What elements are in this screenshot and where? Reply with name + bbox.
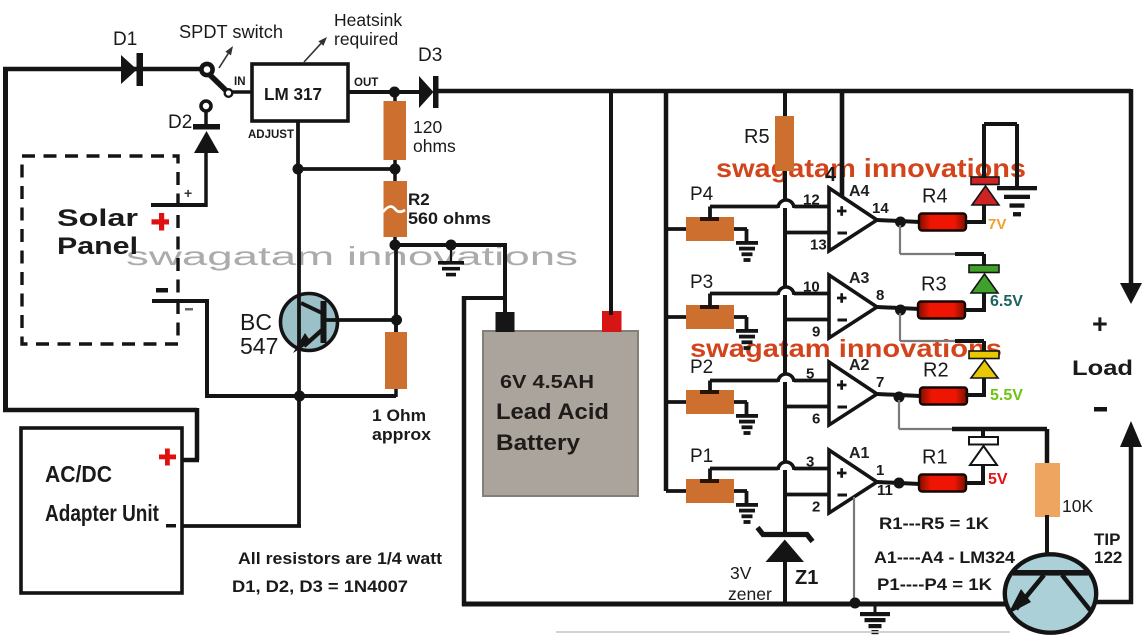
svg-text:10: 10 [803, 279, 820, 296]
svg-text:R3: R3 [921, 274, 947, 296]
resistor R5 [783, 91, 787, 118]
wire A1 output [877, 482, 920, 484]
op-amp A1 [829, 450, 877, 513]
ground of P4 [736, 241, 758, 245]
wire battery minus vertical [503, 243, 507, 314]
svg-text:120: 120 [413, 117, 442, 137]
wire reference rail vertical [783, 171, 787, 534]
junction ground rail [850, 598, 861, 609]
svg-text:zener: zener [728, 584, 772, 604]
wire D2 to solar plus [204, 152, 208, 207]
svg-text:Adapter Unit: Adapter Unit [45, 500, 159, 526]
BC547 internals [321, 301, 327, 343]
svg-text:All resistors are 1/4 watt: All resistors are 1/4 watt [238, 549, 442, 568]
svg-text:+: + [1092, 309, 1108, 339]
regulator LM317 box [252, 64, 348, 121]
zener diode Z1 [758, 528, 813, 542]
svg-text:6.5V: 6.5V [990, 293, 1023, 310]
svg-text:BC: BC [240, 309, 272, 335]
wire switch to LM317 IN [232, 90, 253, 94]
junction BC547 base [391, 315, 402, 326]
svg-text:P1: P1 [690, 446, 713, 467]
wire battery red terminal to rail [609, 91, 613, 315]
wire bottom ground rail [462, 602, 1006, 607]
wire A2 junction down to 10K feed [898, 400, 900, 429]
svg-text:1: 1 [876, 462, 884, 479]
svg-text:P3: P3 [690, 272, 713, 293]
wire 10K to TIP122 base [1045, 515, 1049, 573]
svg-text:P4: P4 [690, 184, 714, 205]
svg-text:8: 8 [876, 287, 884, 304]
svg-text:SPDT switch: SPDT switch [179, 22, 283, 42]
crossover hump at P1 line [778, 462, 794, 470]
svg-text:A4: A4 [849, 183, 870, 200]
wire white LED top to 10K [952, 427, 1047, 432]
svg-text:5: 5 [806, 366, 814, 383]
svg-text:2: 2 [812, 499, 820, 516]
wire ADJUST to resistor junction [298, 167, 395, 171]
wire base junction vertical [394, 245, 398, 333]
svg-text:Load: Load [1072, 357, 1133, 380]
svg-text:12: 12 [803, 192, 820, 209]
svg-text:ADJUST: ADJUST [248, 129, 294, 141]
wire P2 wiper to + input [708, 381, 712, 392]
potentiometer P3 [666, 315, 688, 319]
junction A3 output [895, 305, 906, 316]
ground symbol bottom [874, 604, 877, 613]
svg-text:P1----P4 = 1K: P1----P4 = 1K [877, 575, 993, 594]
svg-text:11: 11 [877, 482, 893, 499]
svg-text:R1: R1 [922, 447, 948, 469]
resistor R3 [918, 302, 965, 319]
ground symbol mid [450, 245, 452, 261]
svg-text:9: 9 [812, 324, 820, 341]
wire LM317 OUT to D3 [348, 90, 419, 94]
wire red LED to top ground loop [982, 124, 986, 178]
diode D1 [121, 55, 137, 84]
svg-text:R2: R2 [408, 190, 430, 209]
junction A2 output [894, 392, 905, 403]
potentiometer P1 [666, 489, 688, 493]
junction emitter [294, 391, 305, 402]
svg-text:swagatam innovations: swagatam innovations [126, 241, 578, 271]
wire solar minus to emitter junction [205, 394, 396, 398]
junction R2 bottom [390, 240, 401, 251]
op-amp A4 [829, 188, 877, 251]
svg-text:Heatsink: Heatsink [334, 10, 402, 30]
wire load right rail down arrow [1129, 89, 1134, 287]
wire R3 to green LED [965, 308, 984, 312]
battery black terminal [496, 312, 515, 332]
svg-text:Battery: Battery [496, 430, 581, 455]
resistor R2 560 ohms [393, 169, 397, 183]
wire solar plus terminal [151, 203, 207, 207]
svg-text:10K: 10K [1062, 496, 1093, 516]
wire A4 output [877, 220, 920, 222]
wire solar minus terminal [152, 299, 207, 303]
junction ground tap [446, 240, 457, 251]
svg-text:R5: R5 [744, 126, 770, 148]
wire A3 junction down to yellow LED [899, 313, 901, 341]
crossover hump at P2 line [778, 374, 794, 382]
svg-text:D2: D2 [168, 112, 192, 133]
potentiometer P4 [666, 227, 688, 231]
svg-text:D1: D1 [113, 29, 137, 50]
svg-text:A3: A3 [849, 270, 870, 287]
svg-text:R4: R4 [922, 186, 948, 208]
wire collector-emitter through BC547 [297, 171, 301, 398]
wire negative rail vertical [462, 296, 467, 606]
svg-text:A1----A4 - LM324: A1----A4 - LM324 [874, 548, 1016, 567]
svg-text:A1: A1 [849, 445, 870, 462]
svg-text:1 Ohm: 1 Ohm [372, 406, 426, 425]
svg-text:560 ohms: 560 ohms [408, 209, 491, 228]
label load minus [1094, 407, 1107, 412]
junction 120 ohm bottom [390, 164, 401, 175]
svg-text:4: 4 [825, 164, 837, 186]
wire ADJUST vertical upper [296, 121, 300, 171]
wire adapter minus horizontal [182, 524, 301, 528]
ground of P3 [736, 329, 758, 333]
solar minus small mark [185, 308, 193, 311]
wire A3 output [877, 307, 920, 309]
wire adapter plus stub [182, 458, 199, 463]
svg-text:Lead Acid: Lead Acid [496, 399, 609, 424]
wire R1 to white LED [966, 481, 983, 485]
svg-text:14: 14 [872, 200, 889, 217]
LED white 5V [969, 437, 998, 445]
svg-text:D1, D2, D3 = 1N4007: D1, D2, D3 = 1N4007 [232, 577, 408, 596]
wire left rail vertical [3, 67, 8, 410]
adapter minus symbol [166, 524, 176, 528]
wire A2 output [877, 394, 920, 396]
svg-text:D3: D3 [418, 45, 442, 66]
wire emitter to adapter minus [297, 396, 301, 526]
LED red 7V [971, 177, 999, 185]
resistor R4 [919, 214, 966, 231]
arrow to SPDT switch [219, 54, 228, 68]
svg-text:6: 6 [812, 411, 820, 428]
svg-text:122: 122 [1094, 548, 1122, 567]
LED yellow 5.5V [969, 351, 999, 359]
resistor 10K [1035, 463, 1060, 517]
junction ADJUST [293, 164, 304, 175]
wire op-amp supply pin 4 [840, 91, 845, 199]
svg-text:7V: 7V [988, 216, 1006, 233]
wire P1 wiper to + input [708, 469, 712, 481]
diode D2 [201, 101, 211, 111]
wire - input of A3 [786, 318, 829, 322]
potentiometer P2 [666, 400, 688, 404]
wire R2 bottom to battery minus [395, 243, 505, 247]
op-amp A3 [829, 275, 877, 338]
ground of P1 [736, 503, 758, 507]
battery 6V 4.5AH box [483, 331, 638, 496]
transistor TIP122 [1005, 554, 1096, 632]
wire pin 11 to ground rail [853, 497, 855, 602]
wire main rail after D3 [438, 89, 1131, 94]
svg-text:5V: 5V [988, 471, 1008, 488]
wire - input of A1 [786, 493, 829, 497]
resistor R1 [919, 475, 966, 492]
svg-text:R1---R5 = 1K: R1---R5 = 1K [879, 514, 990, 533]
svg-text:3V: 3V [730, 563, 752, 583]
svg-text:LM 317: LM 317 [264, 84, 322, 104]
resistor 120 ohms [393, 92, 397, 103]
ground of P2 [736, 414, 758, 418]
AC/DC adapter box [21, 428, 182, 593]
battery red terminal [602, 311, 622, 332]
ground symbol top right [997, 186, 1037, 190]
wire - input of A2 [786, 405, 829, 409]
svg-text:Solar: Solar [57, 205, 138, 232]
svg-text:AC/DC: AC/DC [45, 461, 112, 487]
wire BC547 base lead [324, 318, 396, 322]
svg-text:+: + [184, 185, 192, 201]
svg-text:Z1: Z1 [795, 567, 818, 589]
wire top-left horizontal to switch [3, 67, 203, 72]
svg-text:5.5V: 5.5V [990, 387, 1023, 404]
wire load right rail up arrow [1129, 444, 1134, 604]
svg-text:7: 7 [876, 374, 884, 391]
svg-text:R2: R2 [923, 360, 949, 382]
junction A4 output [895, 217, 906, 228]
bottom faint divider [556, 631, 1010, 633]
adapter plus symbol [159, 455, 176, 460]
svg-text:IN: IN [234, 76, 246, 88]
svg-text:ohms: ohms [413, 136, 456, 156]
resistor R2 [920, 388, 967, 405]
wire A4 junction down to green LED [899, 225, 901, 254]
wire R2 to yellow LED [965, 393, 984, 397]
solar panel dashed box [22, 156, 178, 344]
wire TIP122 collector to load [1094, 600, 1133, 605]
svg-text:6V 4.5AH: 6V 4.5AH [500, 372, 594, 392]
crossover hump at P4 line [778, 200, 794, 208]
junction A1 output [894, 478, 905, 489]
svg-text:547: 547 [240, 333, 278, 359]
resistor 1 Ohm [394, 320, 398, 334]
svg-text:TIP: TIP [1094, 530, 1120, 549]
wire left indicator rail [664, 91, 669, 491]
wire solar minus down [205, 299, 209, 396]
svg-text:approx: approx [372, 425, 432, 444]
arrow to heatsink [304, 44, 321, 62]
LED green 6.5V [969, 265, 999, 273]
diode D3 [419, 76, 434, 108]
solar plus symbol [152, 219, 170, 224]
solar minus symbol [156, 288, 168, 293]
svg-text:A2: A2 [849, 357, 870, 374]
wire P4 wiper to + input [708, 207, 712, 219]
svg-text:required: required [334, 29, 398, 49]
junction at 120 ohm top [389, 87, 400, 98]
svg-text:13: 13 [810, 237, 827, 254]
wire P3 wiper to + input [708, 294, 712, 307]
svg-text:OUT: OUT [354, 77, 378, 89]
crossover hump at P3 line [778, 287, 794, 295]
wire negative tap horizontal [464, 296, 505, 300]
wire adapter plus vertical [195, 408, 200, 460]
wire bottom of left rail to adapter [3, 408, 197, 413]
SPDT switch [201, 64, 212, 75]
svg-text:P2: P2 [690, 357, 713, 378]
svg-text:3: 3 [806, 454, 814, 471]
wire - input of A4 [786, 231, 829, 235]
transistor BC547 [281, 294, 338, 351]
svg-text:Panel: Panel [57, 233, 138, 260]
op-amp A2 [829, 362, 877, 425]
wire R4 to red LED [966, 220, 984, 224]
